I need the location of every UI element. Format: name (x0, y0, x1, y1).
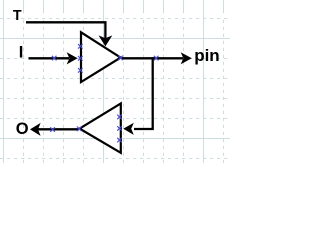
arrowhead down onto U1 enable (99, 35, 113, 46)
pin marker U2 input c (117, 138, 122, 143)
pin marker U1 input c (78, 68, 83, 73)
arrowhead left into U2 input (123, 123, 134, 135)
tri-state buffer U1 (input left, output right) (81, 32, 121, 82)
wire U2 output to O (38, 128, 79, 130)
pin marker U2 input b (117, 126, 122, 131)
wire U1 output to pin (122, 57, 184, 59)
pin marker U1 input a (78, 44, 83, 49)
via at pin-net junction (154, 56, 159, 61)
wire T net: horizontal then down into enable of U1 (26, 22, 105, 40)
svg-text:T: T (13, 8, 22, 24)
wire pin net down to U2 input (134, 57, 153, 129)
wire I net: into U1 input (29, 57, 70, 59)
pin marker U1 output (118, 56, 123, 61)
buffer U2 (input right, output left) (80, 103, 121, 152)
via on O wire (50, 127, 55, 132)
arrowhead right into U1 input (67, 52, 78, 64)
svg-text:O: O (16, 120, 29, 138)
arrowhead left at O (30, 123, 41, 136)
via on I wire (52, 56, 57, 61)
pin marker U2 input a (117, 115, 122, 120)
pin marker U1 input b (78, 56, 83, 61)
svg-text:pin: pin (194, 46, 220, 65)
pin marker U2 output (77, 127, 82, 132)
arrowhead right at pin (181, 52, 192, 64)
svg-text:I: I (19, 44, 24, 62)
